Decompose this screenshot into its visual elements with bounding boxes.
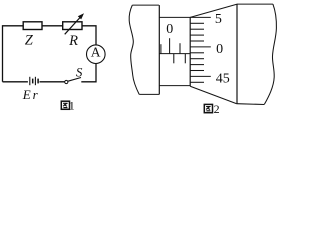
ammeter A circle [87, 45, 106, 64]
svg-text:0: 0 [166, 22, 173, 37]
svg-text:S: S [76, 64, 83, 79]
caption 图2 glyph tu [204, 104, 212, 112]
svg-text:2: 2 [214, 102, 220, 116]
svg-text:1: 1 [69, 98, 75, 112]
thimble break wavy right edge [264, 4, 276, 104]
wire R to ammeter [82, 26, 96, 45]
svg-text:45: 45 [216, 72, 230, 87]
caption 图1 glyph tu [61, 101, 69, 109]
wire battery to left corner [3, 81, 28, 83]
rheostat R arrowhead [78, 13, 84, 19]
cone top diagonal [190, 4, 237, 17]
svg-text:A: A [91, 45, 101, 60]
thimble tick d [190, 40, 204, 42]
cone bottom diagonal [190, 86, 237, 104]
thimble body top edge [237, 3, 273, 5]
sleeve barrel top edge [159, 16, 190, 18]
svg-text:R: R [68, 33, 78, 49]
thimble tick f [190, 58, 204, 60]
battery cell plate long 2 [34, 77, 36, 85]
frame top edge [132, 4, 159, 6]
main scale reference line [159, 53, 190, 55]
rheostat R arrow [65, 16, 82, 34]
svg-text:Z: Z [25, 32, 34, 48]
battery cell plate short 1 [32, 79, 34, 84]
wire Z to R [42, 25, 63, 27]
svg-text:r: r [33, 87, 39, 102]
thimble tick e [190, 52, 204, 54]
thimble tick g [190, 64, 204, 66]
resistor Z [23, 22, 42, 30]
battery cell plate long 1 [29, 77, 31, 85]
thimble tick 0 (long) [190, 46, 211, 48]
battery cell plate short 2 [37, 79, 39, 84]
thimble tick b [190, 28, 204, 30]
svg-text:0: 0 [216, 42, 223, 57]
switch S pivot [65, 80, 68, 83]
main scale upper tick 2 [179, 43, 181, 53]
thimble tick i [190, 81, 204, 83]
rheostat R [63, 22, 82, 30]
thimble tick a [190, 22, 204, 24]
main scale upper tick 1 [160, 44, 162, 53]
thimble graduated edge [189, 17, 191, 86]
wire left+top to Z [3, 26, 24, 82]
svg-text:5: 5 [215, 12, 222, 27]
main scale upper tick 0mm (long) [169, 38, 171, 53]
svg-text:E: E [22, 87, 31, 102]
main scale lower tick 2 [184, 54, 186, 64]
main scale lower tick 1 [173, 54, 175, 64]
thimble body left edge [236, 4, 238, 104]
wire switch to battery [40, 81, 65, 83]
thimble tick 45 (long) [190, 75, 211, 77]
switch S lever [68, 78, 81, 82]
thimble tick h [190, 70, 204, 72]
wire ammeter to switch corner [81, 64, 96, 82]
thimble tick 5 (long) [190, 16, 211, 18]
frame break wavy edge [129, 5, 139, 94]
thimble tick c [190, 34, 204, 36]
thimble body bottom edge [237, 103, 265, 106]
frame bottom edge [139, 93, 159, 95]
frame/sleeve divider [158, 5, 160, 94]
sleeve barrel bottom edge [159, 85, 190, 87]
